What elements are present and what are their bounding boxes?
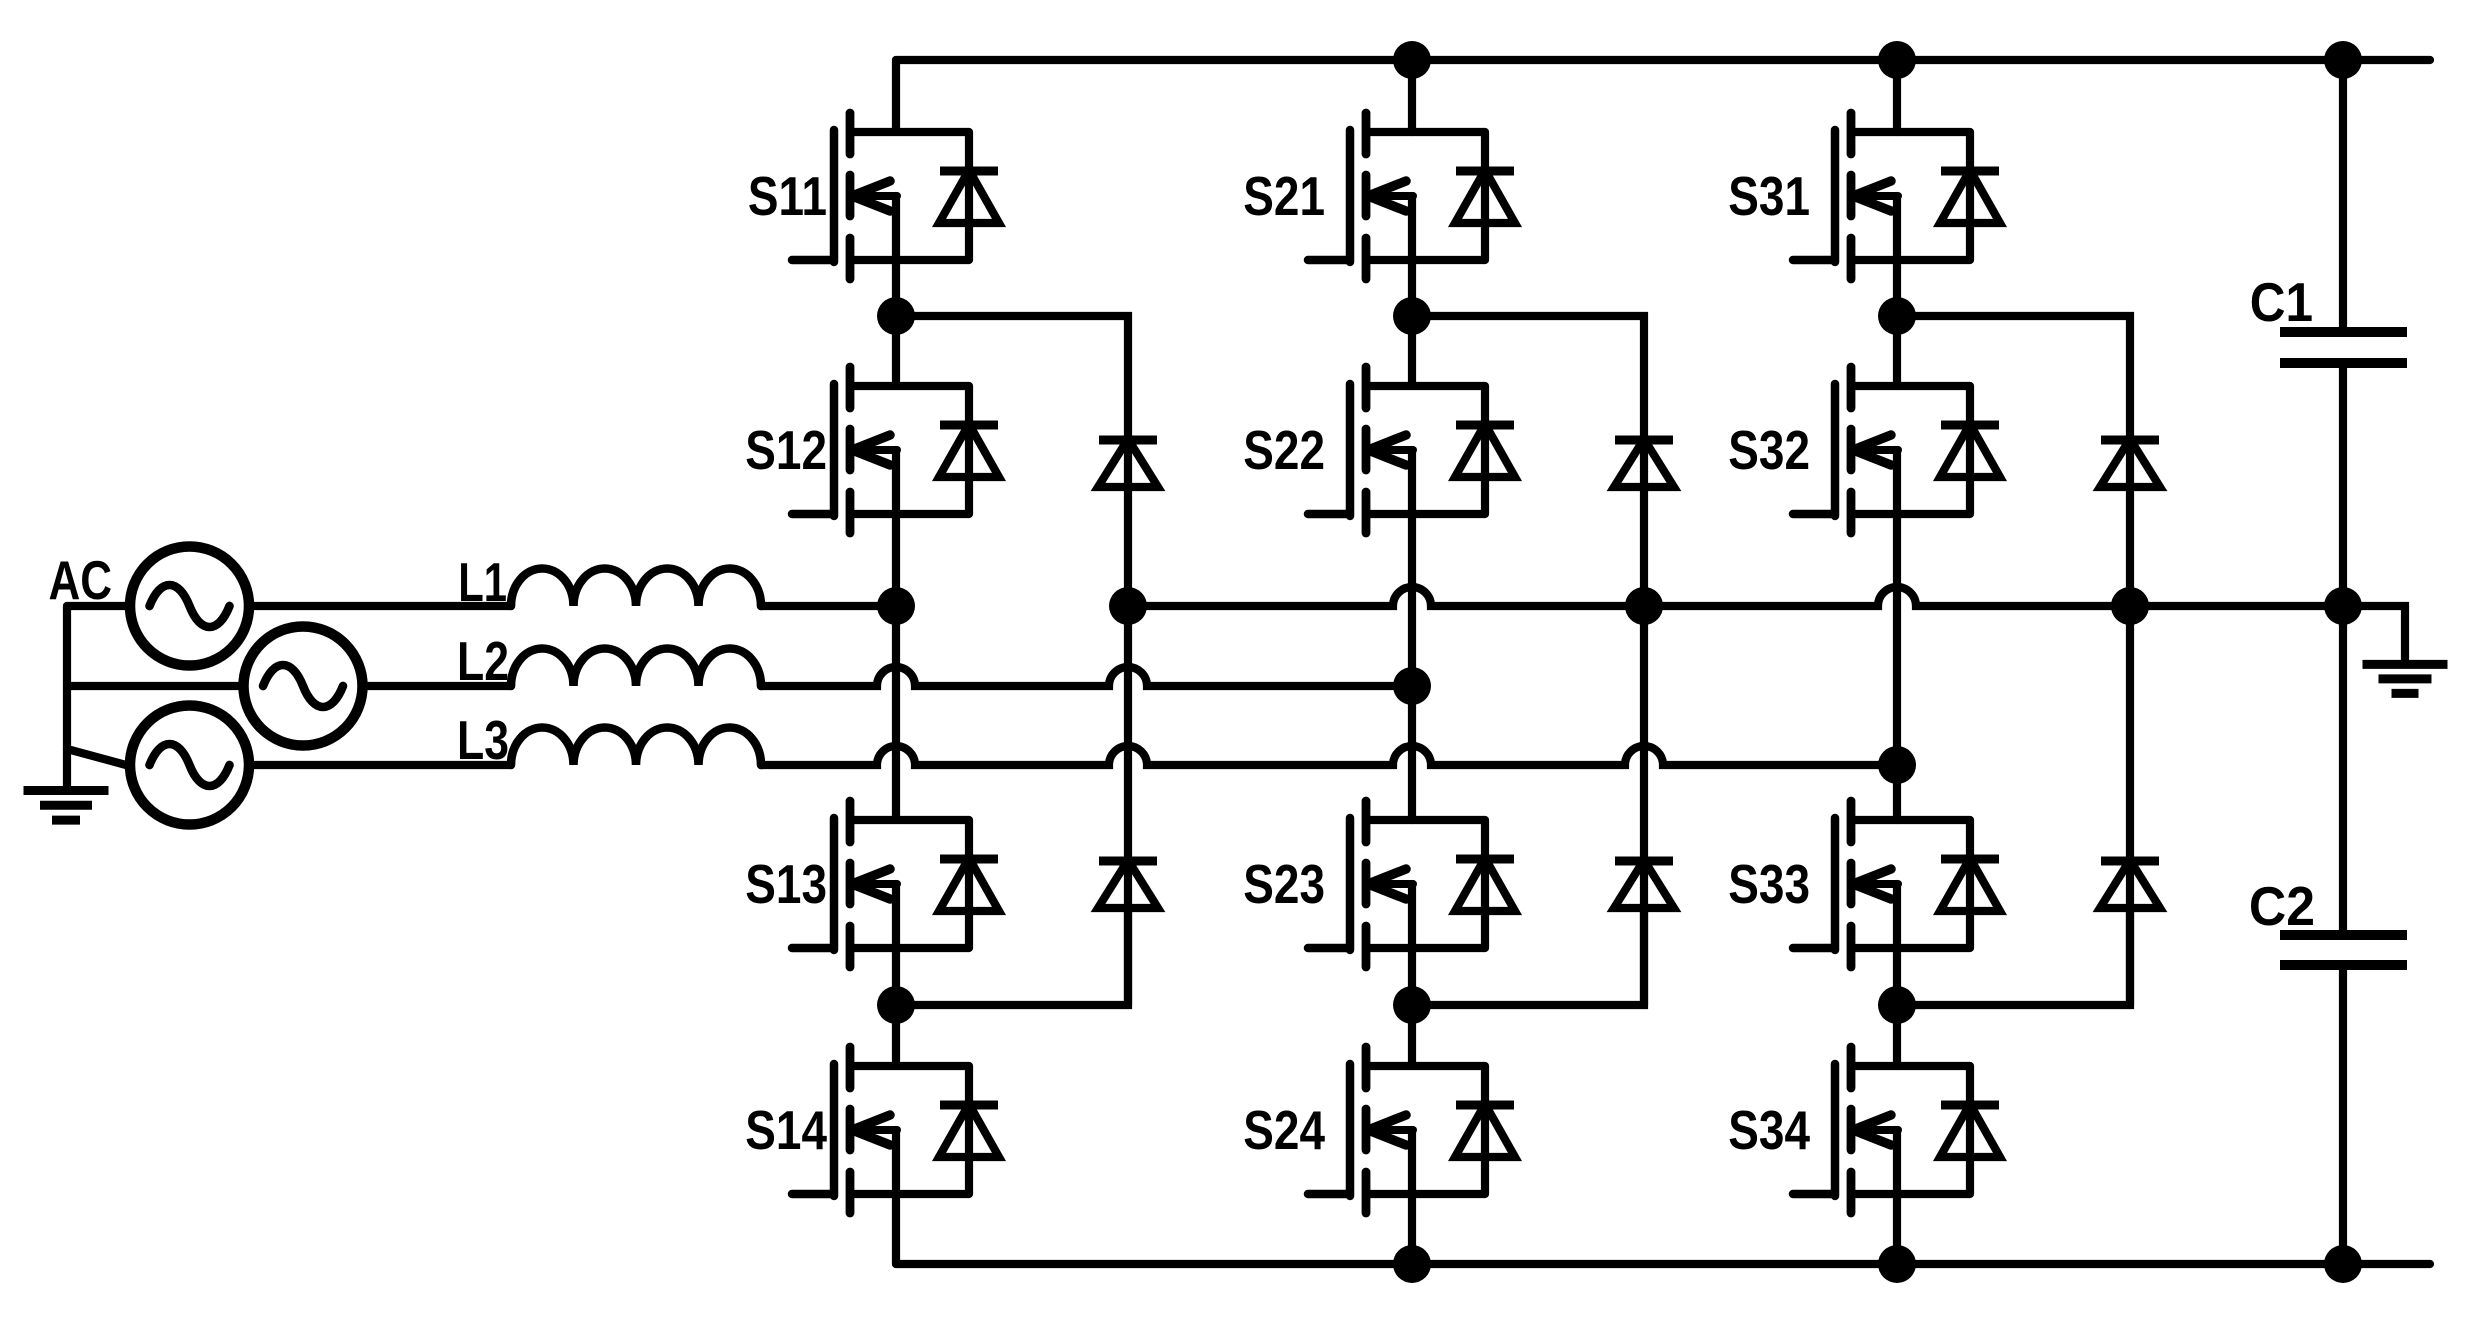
wire: top rail to S31 drain <box>1893 60 1901 132</box>
body diode of S32 <box>1940 386 2000 514</box>
transistor S11 (MOSFET) <box>748 113 969 279</box>
junction: bottom rail / leg 2 <box>1393 1245 1431 1283</box>
wire: node n3a to clamp column 3 <box>1897 316 2130 436</box>
wire: S31 source to node n3a <box>1893 260 1901 316</box>
ground (DC midpoint) <box>2363 664 2448 693</box>
junction: bottom rail / DC bus <box>2324 1245 2362 1283</box>
ground (source neutral) <box>24 791 109 821</box>
svg-text:L3: L3 <box>457 710 509 772</box>
body diode of S13 <box>939 820 999 948</box>
junction: clamp column 2 / neutral <box>1625 587 1663 625</box>
body diode of S24 <box>1455 1066 1515 1194</box>
junction: phase A node <box>877 587 915 625</box>
clamp diode D12 (lower) <box>1098 860 1158 1005</box>
junction: neutral / clamp column 3 <box>2111 587 2149 625</box>
svg-text:C2: C2 <box>2249 877 2315 938</box>
transistor S14 (MOSFET) <box>745 1047 969 1213</box>
label AC <box>48 549 112 611</box>
wire: top rail to C1 <box>2339 60 2347 332</box>
body diode of S14 <box>939 1066 999 1194</box>
wire: clamp column 1 neutral to lower diode <box>1124 606 1132 861</box>
svg-text:C1: C1 <box>2250 273 2313 334</box>
wire: clamp column 3 to node n3b <box>1897 908 2130 1005</box>
wire: top rail to S21 drain <box>1408 60 1416 132</box>
clamp diode D22 (lower) <box>1614 860 1674 1005</box>
AC source V1 (phase A) <box>130 547 249 666</box>
svg-text:S23: S23 <box>1243 853 1325 915</box>
wire: L3 to phase-C node (hops over leg1, clamp1, leg2, clamp2) <box>761 746 1897 765</box>
AC source V2 (phase B) <box>244 627 363 746</box>
wire: L2 to phase-B node (hops over leg1 and clamp column 1) <box>761 667 1412 686</box>
inductor L1 <box>458 553 761 614</box>
svg-text:S14: S14 <box>745 1099 827 1161</box>
svg-text:S21: S21 <box>1243 165 1325 227</box>
svg-text:L1: L1 <box>458 553 507 614</box>
transistor S12 (MOSFET) <box>745 367 969 533</box>
wire: V2 to L2 <box>367 682 512 690</box>
capacitor C2 <box>2249 877 2407 965</box>
wire: bus corner to V1 <box>67 602 126 610</box>
wire: bus diagonal tap to V3 <box>67 749 126 765</box>
wire: S24 source to bottom rail <box>1408 1194 1416 1264</box>
capacitor C1 <box>2250 273 2407 363</box>
svg-text:S11: S11 <box>748 165 827 227</box>
junction: node n2b <box>1393 986 1431 1024</box>
svg-text:S24: S24 <box>1243 1099 1325 1161</box>
wire: positive DC rail <box>896 56 2430 64</box>
AC source V3 (phase C) <box>130 706 249 825</box>
transistor S24 (MOSFET) <box>1243 1047 1485 1213</box>
svg-text:S31: S31 <box>1728 165 1810 227</box>
wire: S32 source to phase node <box>1893 514 1901 765</box>
svg-text:S22: S22 <box>1243 419 1325 481</box>
svg-text:S32: S32 <box>1728 419 1810 481</box>
wire: S22 source to phase node <box>1408 514 1416 686</box>
wire: S13 source to node n1b <box>892 948 900 1005</box>
wire: node n1b to S14 drain <box>892 1005 900 1066</box>
junction: neutral / DC midpoint <box>2324 587 2362 625</box>
wire: S34 source to bottom rail <box>1893 1194 1901 1264</box>
svg-text:S33: S33 <box>1728 853 1810 915</box>
inductor L2 <box>457 631 761 693</box>
body diode of S34 <box>1940 1066 2000 1194</box>
junction: node n3b <box>1878 986 1916 1024</box>
wire: clamp column 2 to node n2b <box>1412 908 1644 1005</box>
wire: node n2a to S22 drain <box>1408 316 1416 386</box>
wire: phase node to S13 drain <box>892 606 900 820</box>
body diode of S21 <box>1455 132 1515 260</box>
clamp diode D32 (lower) <box>2100 860 2160 1005</box>
wire: negative DC rail <box>896 1260 2430 1268</box>
junction: clamp column 1 / neutral <box>1109 587 1147 625</box>
junction: clamp column 3 / neutral <box>2111 587 2149 625</box>
inductor L3 <box>457 710 761 772</box>
wire: phase node to S33 drain <box>1893 765 1901 820</box>
wire: bus tap to V2 <box>67 682 240 690</box>
wire: S12 source to phase node <box>892 514 900 606</box>
transistor S21 (MOSFET) <box>1243 113 1485 279</box>
junction: node n1a <box>877 297 915 335</box>
junction: top rail / DC bus <box>2324 41 2362 79</box>
clamp diode D21 (upper) <box>1614 439 1674 606</box>
wire: node n2b to S24 drain <box>1408 1005 1416 1066</box>
transistor S23 (MOSFET) <box>1243 801 1485 967</box>
junction: node n1b <box>877 986 915 1024</box>
wire: neutral to C2 <box>2339 606 2347 935</box>
wire: C1 to neutral <box>2339 363 2347 606</box>
body diode of S12 <box>939 386 999 514</box>
wire: V3 to L3 <box>254 761 512 769</box>
wire: source bus vertical <box>63 606 71 790</box>
wire: node n1a to S12 drain <box>892 316 900 386</box>
wire: S33 source to node n3b <box>1893 948 1901 1005</box>
body diode of S33 <box>1940 820 2000 948</box>
junction: top rail / leg 3 <box>1878 41 1916 79</box>
transistor S22 (MOSFET) <box>1243 367 1485 533</box>
wire: S21 source to node n2a <box>1408 260 1416 316</box>
body diode of S11 <box>939 132 999 260</box>
transistor S32 (MOSFET) <box>1728 367 1970 533</box>
svg-text:AC: AC <box>48 549 112 611</box>
wire: node n3b to S34 drain <box>1893 1005 1901 1066</box>
body diode of S31 <box>1940 132 2000 260</box>
wire: top rail to S11 drain <box>892 60 900 132</box>
transistor S33 (MOSFET) <box>1728 801 1970 967</box>
junction: node n2a <box>1393 297 1431 335</box>
wire: V1 to L1 <box>254 602 512 610</box>
wire: node n1a to clamp column 1 <box>896 316 1128 436</box>
wire: neutral line (hops over leg2 and leg3) <box>1128 587 2343 606</box>
svg-text:S13: S13 <box>745 853 827 915</box>
junction: phase B node <box>1393 667 1431 705</box>
wire: clamp column 1 to node n1b <box>896 908 1128 1005</box>
svg-text:L2: L2 <box>457 631 509 693</box>
transistor S13 (MOSFET) <box>745 801 969 967</box>
body diode of S22 <box>1455 386 1515 514</box>
transistor S31 (MOSFET) <box>1728 113 1970 279</box>
junction: neutral / clamp column 2 <box>1625 587 1663 625</box>
clamp diode D31 (upper) <box>2100 439 2160 606</box>
wire: clamp column 3 neutral to lower diode <box>2126 606 2134 861</box>
wire: node n3a to S32 drain <box>1893 316 1901 386</box>
wire: C2 to bottom rail <box>2339 965 2347 1264</box>
body diode of S23 <box>1455 820 1515 948</box>
junction: top rail / leg 2 <box>1393 41 1431 79</box>
clamp diode D11 (upper) <box>1098 439 1158 606</box>
svg-text:S12: S12 <box>745 419 827 481</box>
junction: node n3a <box>1878 297 1916 335</box>
junction: phase C node <box>1878 746 1916 784</box>
wire: phase node to S23 drain <box>1408 686 1416 820</box>
wire: S14 source to bottom rail <box>892 1194 900 1264</box>
wire: S11 source to node n1a <box>892 260 900 316</box>
wire: node n2a to clamp column 2 <box>1412 316 1644 436</box>
wire: neutral to ground jog <box>2343 606 2405 661</box>
junction: bottom rail / leg 3 <box>1878 1245 1916 1283</box>
wire: L1 to phase-A node <box>761 602 896 610</box>
transistor S34 (MOSFET) <box>1728 1047 1970 1213</box>
svg-text:S34: S34 <box>1728 1099 1810 1161</box>
wire: S23 source to node n2b <box>1408 948 1416 1005</box>
wire: clamp column 2 neutral to lower diode <box>1640 606 1648 861</box>
